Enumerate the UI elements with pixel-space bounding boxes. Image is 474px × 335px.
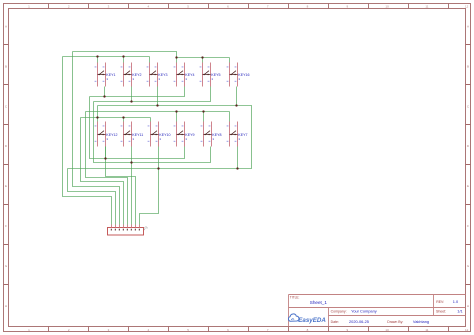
- svg-text:A: A: [467, 25, 469, 29]
- key switch KEY16: [227, 63, 250, 87]
- junction dots: [96, 55, 238, 169]
- svg-text:H: H: [467, 304, 469, 308]
- svg-text:F: F: [5, 224, 7, 228]
- key switch KEY2: [121, 63, 142, 87]
- wire KEY11 bottom to connector pin6: [131, 147, 133, 228]
- svg-text:1: 1: [185, 77, 187, 81]
- svg-text:10: 10: [385, 328, 389, 332]
- wire net R2a to connector pin5: [86, 112, 128, 228]
- svg-text:1: 1: [132, 77, 134, 81]
- svg-text:REV:: REV:: [436, 300, 444, 304]
- svg-text:1: 1: [159, 137, 161, 141]
- svg-text:Your Company: Your Company: [351, 308, 377, 313]
- svg-text:Sheet_1: Sheet_1: [310, 300, 328, 305]
- title block: [289, 295, 466, 327]
- svg-text:10: 10: [385, 4, 389, 8]
- svg-text:B: B: [5, 64, 7, 68]
- svg-text:A: A: [5, 25, 7, 29]
- svg-text:Vakhtang: Vakhtang: [413, 319, 429, 324]
- svg-text:1: 1: [238, 77, 240, 81]
- wire net C3 to connector pin2: [68, 169, 116, 228]
- svg-text:B: B: [467, 64, 469, 68]
- svg-text:1.0: 1.0: [453, 299, 459, 304]
- wire column C1 bus (KEY1,KEY4,KEY12,KEY9 bottoms): [90, 87, 185, 159]
- key switch KEY7: [227, 122, 248, 147]
- svg-text:E: E: [5, 184, 7, 188]
- svg-text:E: E: [467, 184, 469, 188]
- wire net R1b to connector pin1: [63, 57, 112, 228]
- key switch KEY4: [174, 63, 195, 87]
- key switch KEY1: [95, 63, 116, 87]
- wire rail R1b (KEY1,KEY2,KEY3 tops): [63, 57, 150, 63]
- svg-text:H: H: [5, 304, 7, 308]
- wire column C3 bus (KEY3,KEY16,KEY10,KEY7 bottoms): [68, 87, 252, 169]
- svg-text:Drawn By:: Drawn By:: [387, 320, 403, 324]
- svg-text:1: 1: [185, 137, 187, 141]
- key switch KEY8: [201, 122, 222, 147]
- svg-text:1: 1: [158, 77, 160, 81]
- svg-text:1: 1: [106, 77, 108, 81]
- key switch KEY9: [174, 122, 195, 147]
- svg-text:1: 1: [106, 137, 108, 141]
- svg-text:Company:: Company:: [331, 309, 347, 313]
- connector P1 8-pin header: [108, 225, 149, 236]
- svg-text:12: 12: [465, 4, 469, 8]
- wire net R1a to connector pin3: [73, 52, 120, 228]
- svg-text:TITLE:: TITLE:: [290, 295, 300, 299]
- key switch KEY10: [148, 122, 171, 147]
- svg-text:11: 11: [425, 328, 428, 332]
- wire rail R2b (KEY12,KEY11,KEY10 tops): [81, 118, 151, 122]
- svg-text:1: 1: [132, 137, 134, 141]
- wire rail R2a (KEY9,KEY8,KEY7 tops): [86, 112, 230, 122]
- svg-text:11: 11: [425, 4, 428, 8]
- key switch KEY11: [121, 122, 144, 147]
- wire rail R1a (KEY4,KEY5,KEY16 tops): [73, 52, 230, 63]
- wire column C2 bus (KEY2,KEY5,KEY11,KEY8 bottoms): [94, 87, 211, 163]
- svg-text:1: 1: [211, 77, 213, 81]
- key switch KEY12: [95, 122, 118, 147]
- svg-text:Sheet:: Sheet:: [436, 309, 446, 313]
- svg-text:1: 1: [238, 137, 240, 141]
- key switch KEY5: [200, 63, 221, 87]
- wire KEY12 bottom to connector pin7: [106, 147, 136, 228]
- svg-text:EasyEDA: EasyEDA: [298, 317, 326, 324]
- svg-text:12: 12: [465, 328, 469, 332]
- svg-text:2020-06-25: 2020-06-25: [349, 319, 369, 324]
- svg-text:F: F: [467, 224, 469, 228]
- wire KEY10 bottom to connector pin8: [140, 147, 159, 228]
- EasyEDA logo: [288, 314, 326, 324]
- svg-text:Date:: Date:: [331, 320, 339, 324]
- svg-text:1/1: 1/1: [457, 308, 462, 313]
- key switch KEY3: [147, 63, 168, 87]
- wire net R2b to connector pin4: [81, 118, 124, 228]
- svg-text:1: 1: [212, 137, 214, 141]
